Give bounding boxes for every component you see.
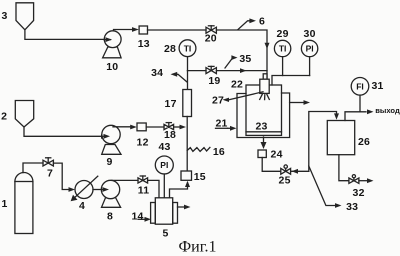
wire valve18 to column line — [174, 125, 186, 130]
wire box13 to valve20 — [148, 29, 207, 31]
caption — [179, 239, 217, 256]
svg-text:32: 32 — [353, 187, 365, 199]
hopper 3 — [1, 3, 33, 30]
pump 9 — [102, 125, 121, 168]
box 24 — [258, 149, 283, 161]
svg-text:30: 30 — [304, 28, 316, 40]
svg-text:11: 11 — [138, 185, 150, 197]
svg-text:1: 1 — [1, 198, 7, 210]
valve 32 — [349, 175, 365, 199]
svg-text:8: 8 — [107, 210, 113, 222]
svg-text:10: 10 — [106, 61, 118, 73]
wire valve7 to HX4 — [53, 163, 75, 192]
gas cylinder 1 — [1, 173, 32, 234]
wire box24 to valve25 — [262, 158, 281, 172]
svg-text:27: 27 — [212, 95, 224, 107]
instrument PI 30 — [301, 28, 317, 57]
wire PI43 stem to vessel5 — [163, 174, 165, 198]
valve 11 — [138, 176, 150, 197]
inlet arrow 21 — [215, 118, 236, 131]
instrument TI 29 — [274, 28, 290, 57]
leader arrow 27 — [212, 92, 263, 107]
valve 19 — [206, 66, 220, 87]
svg-text:15: 15 — [194, 171, 206, 183]
wire valve19 to feed line — [216, 68, 267, 73]
svg-text:24: 24 — [271, 149, 283, 161]
arrow out of vessel23 jacket — [290, 100, 310, 105]
svg-text:33: 33 — [346, 201, 358, 213]
output label — [375, 106, 400, 115]
wire pump10 to box13 — [114, 27, 139, 32]
valve 25 — [279, 165, 291, 187]
svg-text:26: 26 — [358, 136, 370, 148]
wire cylinder1 to valve7 — [23, 163, 43, 173]
svg-text:17: 17 — [165, 98, 177, 110]
wire vessel26 bottom to valve32 — [339, 155, 349, 181]
svg-text:22: 22 — [231, 79, 243, 91]
svg-text:6: 6 — [259, 16, 265, 28]
wire TI28 junction to valve19 line — [188, 70, 207, 72]
arrow vessel23 to box24 — [261, 137, 267, 149]
svg-text:12: 12 — [137, 137, 149, 149]
svg-text:19: 19 — [208, 75, 220, 87]
vessel 26 — [327, 121, 370, 155]
instrument PI 43 — [155, 141, 173, 174]
svg-text:16: 16 — [213, 146, 225, 158]
heat exchanger 4 — [71, 176, 98, 212]
riser and manifold to vessel26 — [309, 112, 339, 172]
svg-text:35: 35 — [239, 53, 251, 65]
svg-text:25: 25 — [279, 175, 291, 187]
svg-text:FI: FI — [356, 82, 364, 92]
svg-text:29: 29 — [277, 28, 289, 40]
valve 20 — [205, 26, 217, 45]
wires TI29 PI30 manifold to vessel23 — [272, 57, 310, 85]
wire hopper3 to pump10 — [25, 30, 112, 42]
svg-text:PI: PI — [306, 44, 314, 54]
wire FI31 stem — [359, 95, 361, 112]
valve 18 — [164, 123, 176, 141]
svg-text:13: 13 — [138, 38, 150, 50]
wire valve25 to riser — [291, 169, 309, 174]
hopper 2 — [1, 101, 34, 128]
vessel26 top outlet to output — [345, 109, 374, 120]
instrument FI 31 — [351, 78, 383, 96]
reactor 5 — [151, 198, 178, 240]
wire box12 to valve18 — [146, 126, 164, 128]
svg-text:PI: PI — [160, 160, 168, 170]
svg-text:7: 7 — [47, 168, 53, 180]
spray nozzle 22 — [231, 74, 269, 94]
wire pump8 to valve11 — [112, 179, 139, 181]
wire valve11 to vessel5 — [148, 180, 159, 198]
svg-text:9: 9 — [106, 156, 112, 168]
branch arrow 6 — [238, 16, 265, 30]
svg-text:43: 43 — [158, 141, 170, 153]
svg-text:4: 4 — [79, 200, 85, 212]
svg-text:3: 3 — [1, 10, 7, 22]
wire valve20 to corner and down to nozzle — [216, 30, 267, 79]
instrument TI 28 — [164, 40, 196, 57]
wire TI28 junction down to column17 — [187, 71, 189, 90]
svg-text:5: 5 — [162, 227, 168, 239]
box 15 — [181, 171, 206, 183]
pump 10 — [103, 31, 122, 73]
svg-text:TI: TI — [279, 44, 287, 54]
wire pump9 to box12 — [113, 125, 137, 130]
svg-text:23: 23 — [255, 121, 267, 133]
pump 8 — [101, 180, 120, 222]
svg-text:Фиг.1: Фиг.1 — [179, 239, 217, 256]
wire hopper2 to pump9 — [24, 127, 108, 139]
wire HX4 to pump8 — [93, 187, 110, 192]
svg-text:18: 18 — [164, 129, 176, 141]
inlet arrow 14 — [131, 211, 151, 223]
svg-text:34: 34 — [151, 67, 163, 79]
wire vessel5 to box15 — [170, 181, 191, 198]
zigzag 16 — [187, 146, 225, 158]
box 13 — [138, 26, 150, 50]
svg-text:14: 14 — [131, 211, 143, 223]
vessel 23 inner shell — [246, 85, 282, 135]
valve 7 — [43, 158, 53, 180]
leader arrow 34 — [151, 67, 187, 82]
svg-text:TI: TI — [184, 43, 192, 53]
column 17 — [165, 90, 192, 117]
svg-text:2: 2 — [1, 111, 7, 123]
drain line arrow 33 — [309, 166, 358, 213]
box 12 — [137, 123, 149, 149]
svg-text:выход: выход — [375, 106, 400, 115]
svg-text:28: 28 — [164, 43, 176, 55]
arrow after valve32 — [359, 178, 374, 183]
branch arrow 35 — [225, 53, 251, 68]
flow arrow down on feed line — [265, 43, 270, 49]
svg-text:31: 31 — [371, 80, 383, 92]
spray lines — [260, 94, 270, 99]
arrow out of reactor 5 — [178, 205, 191, 210]
vessel 23 outer jacket — [237, 93, 290, 138]
svg-text:20: 20 — [205, 33, 217, 45]
wire TI28 stem — [187, 57, 189, 71]
wire column17 down to box15 — [186, 117, 188, 172]
